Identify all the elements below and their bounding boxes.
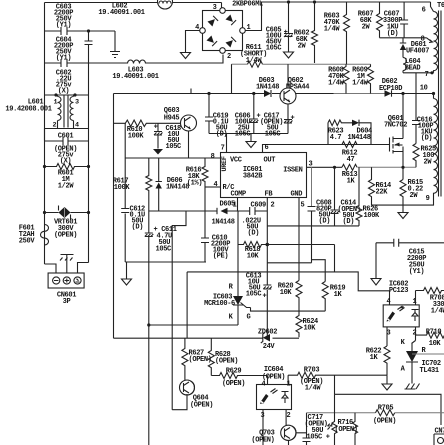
svg-text:19.40091.001: 19.40091.001	[112, 73, 158, 81]
diode D601	[400, 38, 429, 58]
svg-text:4.7: 4.7	[330, 134, 342, 142]
node pin7	[430, 71, 433, 74]
wire left rail x=44	[44, 3, 46, 265]
svg-text:1N4148: 1N4148	[348, 134, 371, 142]
resistor R626	[356, 167, 380, 226]
mosfet Q601 7NC702	[384, 115, 407, 154]
capacitor C717	[303, 413, 330, 445]
wire IC602 pin1 to R708	[415, 291, 417, 305]
svg-text:PC123: PC123	[389, 287, 408, 295]
transistor Q703	[251, 425, 306, 445]
wire L601 bottom line	[45, 129, 89, 141]
svg-text:T6: T6	[437, 2, 444, 10]
wire C611 rail long drop	[148, 262, 150, 445]
svg-text:5: 5	[301, 202, 305, 210]
wire R618 extension to pin4 feed	[267, 245, 334, 272]
resistor R627	[182, 338, 212, 381]
resistor R629	[211, 368, 267, 389]
wire IC602 pin3 column	[386, 327, 388, 346]
svg-text:(Y1): (Y1)	[409, 268, 425, 276]
wire ISSEN pin3 line	[307, 166, 343, 168]
svg-text:(PE): (PE)	[213, 253, 229, 261]
node pin10	[432, 92, 435, 95]
svg-text:10K: 10K	[280, 289, 293, 297]
wire AC line2 y=62.5	[45, 62, 128, 64]
svg-text:1: 1	[233, 202, 237, 210]
svg-text:250V: 250V	[19, 238, 36, 246]
svg-text:105C: 105C	[266, 45, 282, 53]
node B+ at C605	[287, 0, 290, 3]
svg-text:105C: 105C	[235, 131, 251, 139]
resistor R623	[328, 120, 346, 145]
wire bridge AC1 drop	[221, 3, 223, 8]
wire bridge plus output	[245, 2, 430, 31]
wire snubber line y=37.3 to pin8 tap	[380, 38, 433, 43]
node B+ at R602	[313, 0, 316, 3]
svg-text:(OPEN): (OPEN)	[335, 426, 358, 434]
resistor R708	[416, 288, 444, 316]
resistor R610	[114, 120, 181, 140]
wire VCC rail left drop	[113, 94, 115, 339]
wire control bus y=412.2	[307, 412, 444, 414]
svg-text:1/4W: 1/4W	[431, 308, 444, 316]
svg-text:R705: R705	[378, 405, 394, 413]
svg-text:OUT: OUT	[264, 157, 276, 165]
resistor R613	[342, 164, 358, 185]
diode D602	[379, 78, 434, 97]
wire pin4 feed line y=271.4	[187, 272, 389, 305]
resistor R705	[373, 405, 396, 426]
resistor R620	[278, 281, 302, 312]
resistor R612	[342, 142, 358, 165]
svg-text:7NC702: 7NC702	[384, 122, 407, 130]
wire IC604 pin1 to R703	[287, 375, 289, 384]
ground at C618	[153, 149, 163, 155]
node SCR cathode line	[147, 323, 150, 326]
resistor R614	[369, 167, 404, 205]
svg-text:4: 4	[214, 181, 218, 189]
wire R611 feed down to VCC rail	[231, 64, 233, 93]
capacitor C618	[154, 123, 181, 151]
svg-text:G: G	[247, 314, 251, 322]
hot ground at C605	[284, 52, 294, 58]
wire source column	[402, 152, 404, 180]
hot ground below R615	[398, 213, 408, 219]
capacitor C611	[145, 211, 177, 262]
capacitor C607	[383, 2, 408, 38]
wire right rail x=88	[88, 63, 90, 263]
transformer T601 upper primary	[421, 2, 444, 197]
transformer L601	[5, 95, 79, 130]
svg-text:UF4007: UF4007	[406, 48, 429, 56]
svg-text:19.40091.001: 19.40091.001	[98, 9, 144, 17]
svg-text:1N4148: 1N4148	[212, 219, 235, 227]
svg-text:H945: H945	[164, 115, 180, 123]
svg-text:BEAD: BEAD	[405, 65, 421, 73]
svg-text:(OPEN): (OPEN)	[251, 437, 274, 445]
node VRT601 left	[43, 211, 46, 214]
svg-text:(Y1): (Y1)	[56, 55, 72, 63]
zener ZD602	[114, 329, 300, 352]
capacitor C612	[121, 206, 145, 232]
svg-text:TL431: TL431	[420, 367, 439, 375]
capacitor C605	[266, 2, 293, 53]
resistor R625	[413, 144, 436, 168]
resistor R716	[328, 394, 358, 445]
wire drain column	[402, 94, 404, 131]
resistor R616	[186, 158, 208, 188]
svg-text:9: 9	[426, 195, 430, 203]
node ISSEN junction	[333, 166, 336, 169]
diode D606	[156, 158, 190, 211]
svg-text:(OPEN): (OPEN)	[262, 374, 285, 382]
connector CN601	[48, 273, 84, 306]
wire pin7 line	[403, 71, 434, 73]
svg-text:CN7: CN7	[435, 428, 444, 436]
wire bridge minus to hot ground	[186, 31, 200, 53]
resistor R601	[45, 164, 89, 191]
transistor Q604	[172, 338, 213, 410]
diode D604	[346, 120, 373, 145]
svg-text:1/4W: 1/4W	[246, 57, 263, 65]
IC601 UC3842	[221, 153, 307, 199]
wire VREF rail y=157.5	[125, 157, 220, 159]
node R601 left	[43, 165, 46, 168]
svg-text:(OPEN): (OPEN)	[215, 358, 238, 366]
node C604 top junction	[87, 29, 90, 32]
node source sense	[401, 166, 404, 169]
transistor Q602	[280, 64, 309, 121]
svg-text:(Y1): (Y1)	[56, 22, 72, 30]
wire COMP pin1	[237, 198, 239, 212]
wire C603 line y=30	[45, 30, 116, 32]
wire VCC cap bottom rail y=133	[209, 133, 288, 135]
diode D605	[212, 201, 236, 227]
svg-text:4: 4	[387, 298, 391, 306]
svg-text:7: 7	[221, 145, 225, 153]
resistor R602	[294, 2, 318, 63]
capacitor C604	[54, 31, 93, 63]
hot ground at bridge	[181, 53, 191, 59]
svg-text:1/2W: 1/2W	[58, 183, 75, 191]
svg-text:10K: 10K	[304, 325, 317, 333]
svg-text:100K: 100K	[364, 212, 381, 220]
svg-text:GND: GND	[291, 191, 303, 199]
wire link 262.3	[267, 226, 311, 263]
node drain rail at D602	[401, 92, 404, 95]
optocoupler IC602 PC123	[383, 281, 419, 338]
capacitor C609	[242, 202, 267, 238]
svg-text:105C: 105C	[166, 143, 182, 151]
svg-text:(D): (D)	[132, 224, 144, 232]
resistor R608	[328, 64, 349, 93]
transformer T601 lower primary	[403, 94, 438, 206]
capacitor C619	[205, 94, 228, 139]
wire L601 top line	[45, 94, 89, 96]
svg-text:+: +	[291, 115, 295, 123]
capacitor C608	[308, 167, 332, 226]
wire AC line2 to bridge	[146, 55, 224, 64]
svg-text:C601: C601	[58, 133, 74, 141]
resistor R703	[288, 367, 387, 393]
thyristor IC603 MCR100-6	[204, 245, 250, 326]
svg-text:8: 8	[421, 36, 425, 44]
svg-text:ZD602: ZD602	[258, 329, 277, 337]
wire AC line1 top left segment	[45, 2, 158, 4]
svg-text:105C +: 105C +	[307, 434, 330, 442]
diode D603	[256, 77, 279, 97]
svg-text:(D): (D)	[387, 30, 399, 38]
svg-text:1/4W: 1/4W	[352, 80, 369, 88]
resistor R624	[296, 311, 318, 337]
inductor L604 BEAD	[403, 58, 420, 73]
wire secondary bus y=393.8	[335, 375, 442, 425]
resistor R607	[358, 2, 383, 38]
wire IC601 pin4 RC	[205, 186, 221, 188]
resistor R710	[416, 329, 444, 349]
wire IC604 pin2 column	[285, 410, 287, 426]
wire right rail to connector	[78, 263, 89, 274]
connector CN701	[434, 428, 444, 445]
node VRT601 right	[87, 211, 90, 214]
hot ground arrow below rail	[122, 262, 132, 285]
svg-text:3842B: 3842B	[243, 173, 263, 181]
svg-text:105C: 105C	[246, 291, 262, 299]
resistor R611 (SHORT) jumper	[232, 44, 371, 67]
wire Q604 column top	[186, 272, 188, 338]
svg-text:10K: 10K	[247, 253, 260, 261]
wire left rail to connector	[45, 264, 57, 273]
transistor Q603	[164, 89, 197, 159]
wire FB pin2 column	[266, 198, 268, 245]
capacitor C606	[235, 94, 261, 139]
svg-text:MPSA44: MPSA44	[286, 84, 309, 92]
bridge rectifier D600 2KBP06ML	[195, 1, 263, 62]
wire VCC rail y=93	[114, 93, 334, 95]
svg-text:2W: 2W	[410, 192, 419, 200]
wire rail x=124.7 C612 column	[124, 123, 126, 262]
svg-text:100K: 100K	[114, 184, 131, 192]
svg-text:1: 1	[54, 99, 58, 107]
svg-text:(D): (D)	[216, 131, 228, 139]
capacitor C601	[45, 133, 89, 166]
svg-text:7: 7	[425, 71, 429, 79]
svg-text:2: 2	[287, 412, 291, 420]
svg-text:1K: 1K	[347, 178, 356, 186]
svg-text:47: 47	[347, 156, 355, 164]
wire COMP FB line y=210.5	[149, 210, 267, 212]
node R601 right	[87, 165, 90, 168]
varistor VRT601	[45, 206, 89, 240]
svg-text:UREF: UREF	[221, 156, 229, 171]
resistor R603	[324, 2, 350, 64]
wire IC601 pin7	[226, 134, 228, 153]
svg-text:2W: 2W	[362, 24, 371, 32]
svg-text:(D): (D)	[421, 135, 433, 143]
resistor R617	[113, 158, 152, 211]
svg-text:1N4148: 1N4148	[166, 184, 189, 192]
svg-text:2W: 2W	[298, 43, 307, 51]
svg-text:1/4W: 1/4W	[328, 80, 345, 88]
resistor R618	[238, 211, 267, 261]
node C619 top	[207, 92, 210, 95]
svg-text:FB: FB	[265, 191, 274, 199]
svg-text:10K: 10K	[429, 340, 442, 348]
svg-text:1/4W: 1/4W	[305, 385, 322, 393]
svg-text:2KBP06ML: 2KBP06ML	[232, 1, 263, 9]
svg-text:100K: 100K	[128, 133, 145, 141]
svg-text:(OPEN): (OPEN)	[189, 356, 212, 364]
svg-text:4: 4	[262, 381, 266, 389]
svg-text:(D): (D)	[248, 230, 260, 238]
shunt reg IC702 TL431	[401, 339, 444, 384]
svg-text:2W: 2W	[424, 159, 433, 167]
svg-text:1/4W: 1/4W	[324, 26, 341, 34]
svg-text:COMP: COMP	[231, 191, 247, 199]
hot ground below cap rail	[246, 134, 256, 148]
wire IC602 pin2 column	[415, 327, 417, 341]
svg-text:ISSEN: ISSEN	[283, 167, 302, 175]
node L601 pin1	[54, 93, 57, 96]
svg-text:24V: 24V	[263, 343, 276, 351]
svg-text:2: 2	[271, 202, 275, 210]
capacitor C614	[331, 167, 361, 226]
wire step from line to Q604 column	[172, 211, 186, 338]
svg-text:10: 10	[420, 85, 428, 93]
wire cold rail y=261.5	[125, 261, 206, 263]
svg-text:105C: 105C	[265, 131, 281, 139]
svg-text:3: 3	[75, 99, 79, 107]
wire IC601 pin6 OUT	[263, 145, 390, 153]
resistor R619	[299, 282, 345, 312]
capacitor C616	[412, 73, 433, 144]
svg-text:(1%): (1%)	[187, 180, 203, 188]
svg-text:6: 6	[422, 7, 426, 15]
wire R622 to ground	[386, 375, 388, 383]
svg-text:8: 8	[211, 153, 215, 161]
svg-text:R703: R703	[304, 367, 320, 375]
wire SCR cathode to left rail	[149, 324, 238, 326]
wire R629 to IC604 pin4	[267, 376, 269, 385]
hot ground below R622	[382, 384, 392, 390]
svg-text:+: +	[154, 124, 158, 132]
chassis ground below TL431	[405, 384, 420, 390]
svg-text:3: 3	[213, 4, 217, 12]
svg-text:(OPEN): (OPEN)	[54, 232, 77, 240]
svg-text:22K: 22K	[376, 189, 389, 197]
inductor L603	[112, 60, 158, 81]
svg-text:VCC: VCC	[230, 157, 242, 165]
node R618 FB junction	[266, 243, 270, 247]
svg-text:ECP10D: ECP10D	[379, 85, 402, 93]
svg-text:C609: C609	[251, 202, 267, 210]
capacitor C610	[201, 187, 230, 262]
resistor R609	[352, 64, 373, 93]
svg-text:19.42008.001: 19.42008.001	[5, 106, 51, 114]
svg-text:R629: R629	[226, 368, 242, 376]
svg-text:6: 6	[265, 144, 269, 152]
inductor L602	[98, 0, 172, 17]
svg-text:1K: 1K	[370, 354, 379, 362]
node L601 pin3	[73, 93, 76, 96]
wire link 259.2 to R619	[312, 260, 326, 282]
capacitor C613	[246, 273, 272, 301]
resistor R628	[208, 338, 238, 375]
wire SCR gate line	[251, 308, 300, 312]
capacitor C603	[54, 4, 73, 36]
wire GND pin5 column	[298, 198, 300, 281]
wire IC604 pin3 column	[262, 410, 264, 445]
fuse F601	[19, 225, 49, 246]
svg-text:R710: R710	[426, 329, 442, 337]
svg-text:(OPEN): (OPEN)	[222, 380, 245, 388]
svg-text:105C: 105C	[156, 246, 172, 254]
resistor R622	[366, 346, 390, 375]
node C606 top	[252, 92, 255, 95]
resistor R615	[400, 179, 423, 213]
svg-text:1K: 1K	[334, 291, 343, 299]
svg-text:(OPEN): (OPEN)	[373, 417, 396, 425]
earth ground CN601	[60, 255, 74, 274]
svg-text:1N4148: 1N4148	[256, 84, 279, 92]
svg-text:3P: 3P	[63, 298, 71, 306]
svg-text:(X): (X)	[58, 88, 70, 96]
capacitor C615	[371, 239, 444, 285]
wire line y=225.4	[267, 225, 359, 227]
ground at C603	[110, 31, 120, 58]
svg-text:(D): (D)	[343, 218, 355, 226]
svg-text:MCR100-6: MCR100-6	[204, 300, 235, 308]
optocoupler IC604	[257, 366, 292, 420]
svg-text:(D): (D)	[319, 218, 331, 226]
svg-text:+: +	[284, 29, 288, 37]
capacitor C617	[260, 113, 295, 139]
capacitor C602	[56, 59, 73, 96]
svg-text:+: +	[263, 293, 267, 301]
svg-text:2: 2	[227, 53, 231, 61]
wire AC line1 right of L602	[173, 2, 222, 4]
svg-text:(OPEN): (OPEN)	[190, 402, 213, 410]
wire C613 column	[266, 245, 268, 339]
